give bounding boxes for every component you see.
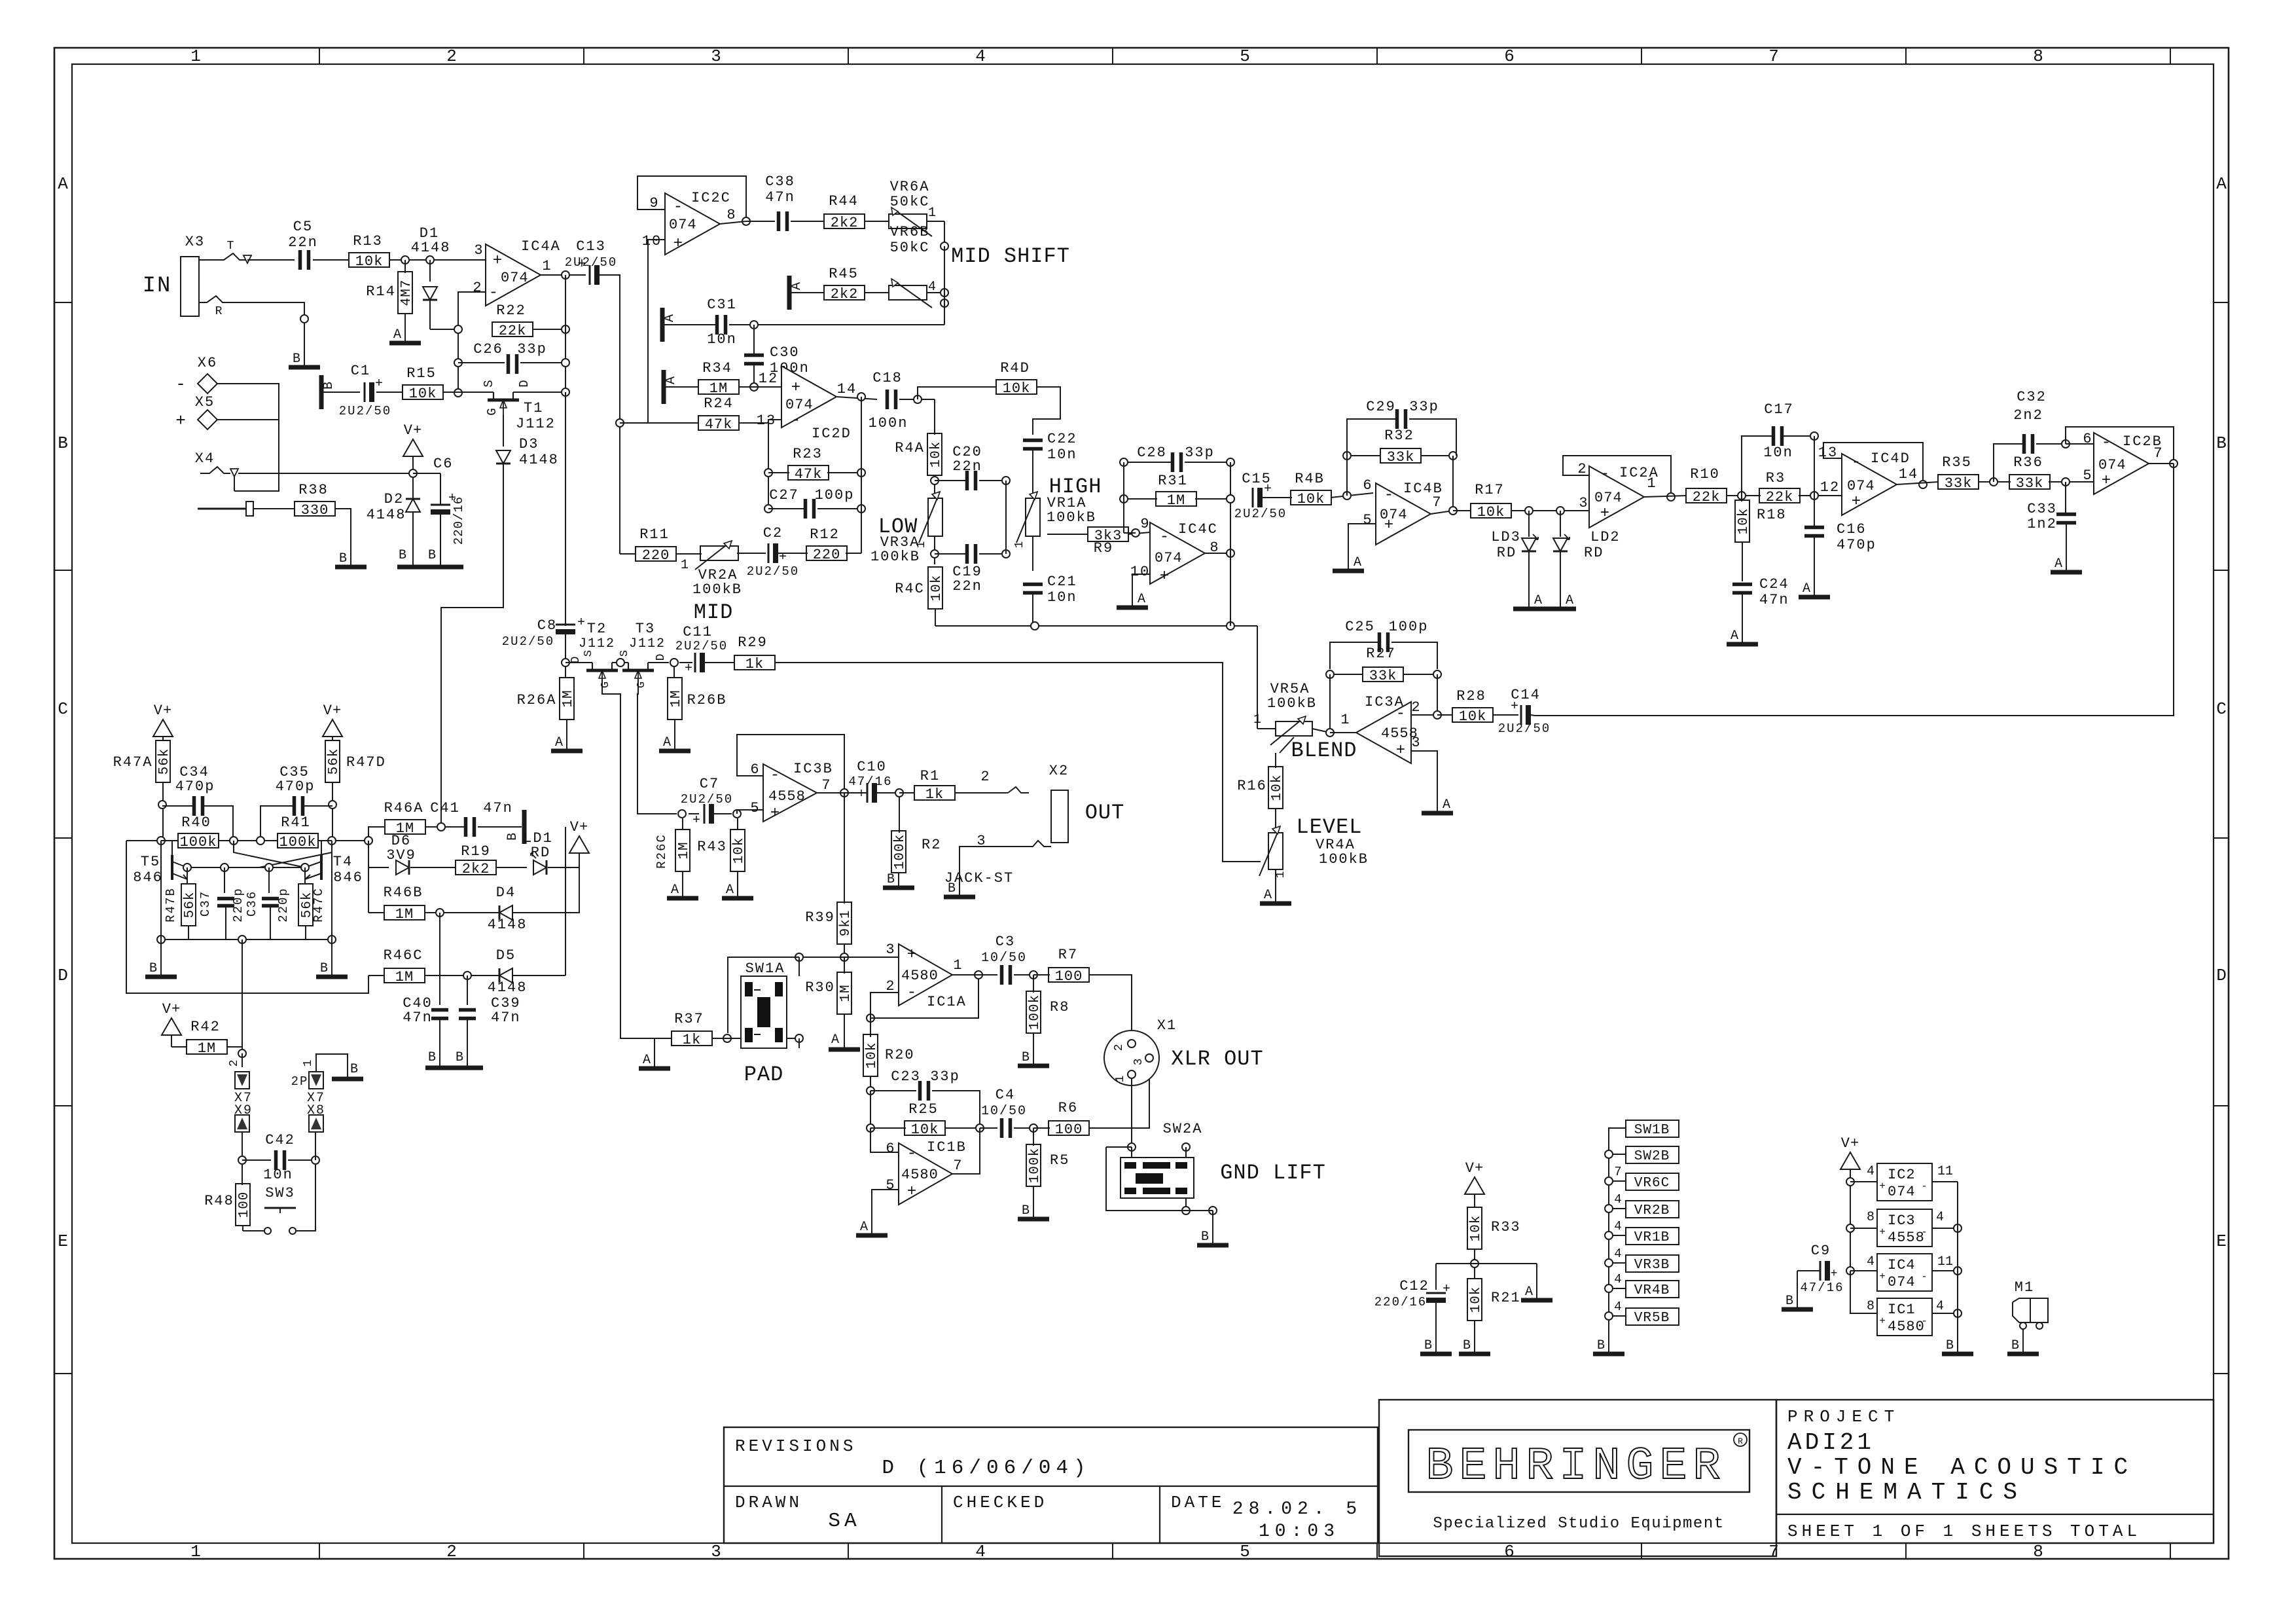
svg-text:R40: R40: [181, 814, 211, 831]
svg-text:R6: R6: [1058, 1100, 1078, 1116]
svg-text:2k2: 2k2: [831, 286, 859, 302]
svg-text:C13: C13: [576, 238, 606, 255]
svg-text:IC2D: IC2D: [812, 426, 852, 442]
svg-text:X4: X4: [195, 450, 215, 467]
svg-text:C: C: [58, 699, 68, 719]
svg-text:47n: 47n: [403, 1010, 433, 1026]
svg-text:R23: R23: [793, 446, 823, 462]
svg-text:VR2B: VR2B: [1634, 1203, 1670, 1218]
wire X4 row to V+ node: [238, 473, 413, 474]
svg-text:1: 1: [542, 258, 552, 274]
capacitor C27: [768, 508, 804, 509]
svg-text:VR3B: VR3B: [1634, 1258, 1670, 1273]
svg-text:22n: 22n: [952, 578, 982, 594]
svg-text:C24: C24: [1759, 576, 1789, 593]
svg-text:C5: C5: [293, 219, 313, 235]
svg-text:2U2/50: 2U2/50: [675, 639, 728, 653]
svg-text:B: B: [1946, 1338, 1954, 1353]
svg-text:R31: R31: [1158, 473, 1188, 489]
op-amp IC4A: [486, 244, 541, 306]
svg-text:10k: 10k: [1270, 775, 1285, 801]
svg-text:R17: R17: [1475, 482, 1505, 498]
svg-text:4: 4: [975, 1542, 986, 1561]
capacitor C34: [162, 805, 192, 807]
wire IC3A pin2 to R28: [1411, 714, 1437, 716]
svg-text:9: 9: [1140, 516, 1150, 532]
svg-text:C38: C38: [765, 173, 795, 190]
svg-text:9k1: 9k1: [838, 910, 853, 937]
svg-text:6: 6: [2083, 431, 2092, 447]
svg-text:5: 5: [750, 800, 760, 816]
svg-text:C30: C30: [770, 344, 800, 361]
svg-text:X3: X3: [185, 234, 205, 250]
svg-text:3V9: 3V9: [386, 847, 416, 864]
svg-text:C28: C28: [1137, 445, 1167, 461]
svg-text:10/50: 10/50: [981, 1104, 1027, 1119]
connector X5 diamond: [198, 410, 217, 429]
wire IC4D output: [1897, 482, 1939, 484]
svg-text:B: B: [1785, 1294, 1793, 1309]
ground B below ring node: [289, 365, 320, 370]
svg-text:10n: 10n: [707, 331, 737, 348]
resistor R4B: [1291, 490, 1331, 505]
resistor R19: [456, 860, 496, 875]
resistor R24: [620, 422, 699, 424]
ground B below T5: [145, 975, 177, 979]
svg-text:R20: R20: [885, 1047, 915, 1063]
svg-text:J112: J112: [579, 636, 615, 651]
svg-text:7: 7: [1768, 1542, 1779, 1561]
svg-text:M1: M1: [2015, 1279, 2034, 1296]
svg-text:14: 14: [837, 381, 857, 397]
resistor R39: [844, 896, 845, 903]
svg-text:4: 4: [1867, 1164, 1874, 1179]
svg-text:10k: 10k: [1459, 708, 1487, 725]
wire IC2A output: [1644, 496, 1687, 497]
svg-text:R5: R5: [1050, 1152, 1069, 1169]
svg-text:33k: 33k: [2016, 475, 2044, 492]
svg-text:10/50: 10/50: [981, 951, 1027, 966]
svg-text:B: B: [321, 382, 336, 390]
svg-text:C9: C9: [1811, 1243, 1831, 1259]
capacitor C22: [1023, 439, 1043, 443]
ground B right of C41: [522, 810, 527, 844]
svg-text:1: 1: [190, 1542, 201, 1561]
wire T2 gate down: [602, 680, 655, 1038]
svg-text:A: A: [1566, 593, 1573, 608]
ground B below wafer bus: [1593, 1352, 1624, 1357]
svg-text:SW2A: SW2A: [1163, 1121, 1203, 1137]
svg-text:4: 4: [1936, 1299, 1944, 1314]
svg-text:8: 8: [1867, 1210, 1874, 1225]
wire IC1A output: [952, 974, 997, 976]
capacitor C19: [934, 536, 935, 564]
svg-text:R39: R39: [805, 909, 835, 926]
resistor R11: [620, 553, 636, 555]
svg-text:10: 10: [1130, 564, 1150, 580]
op-amp IC2B: [2094, 433, 2149, 494]
capacitor C16: [1814, 496, 1815, 526]
svg-text:10k: 10k: [355, 253, 384, 270]
wire R33 node row: [1436, 1263, 1537, 1264]
capacitor C35: [260, 806, 293, 841]
svg-text:IC1A: IC1A: [927, 994, 967, 1010]
resistor R42: [187, 1040, 227, 1054]
tone stack bottom bus: [935, 625, 1257, 627]
svg-text:R1: R1: [920, 768, 940, 784]
wire T3 gate down: [637, 680, 677, 814]
svg-text:B: B: [2216, 433, 2227, 453]
svg-text:50kC: 50kC: [890, 240, 930, 256]
wire IC1B output: [952, 1128, 980, 1174]
IC2B feedback loop: [2066, 427, 2174, 464]
wire R6 to XLR pin3: [1088, 1058, 1149, 1128]
svg-text:G: G: [600, 682, 612, 688]
pot wafer VR4B: [1626, 1281, 1679, 1298]
ground B below R38: [335, 565, 367, 570]
capacitor C38: [777, 211, 781, 231]
svg-text:R34: R34: [702, 360, 732, 376]
svg-text:C27: C27: [769, 487, 799, 503]
ground B below R5: [1018, 1217, 1049, 1222]
svg-text:R47D: R47D: [346, 754, 386, 771]
capacitor C33: [2065, 482, 2066, 513]
resistor R41: [278, 833, 318, 848]
svg-text:1: 1: [1647, 475, 1657, 492]
svg-text:B: B: [1463, 1338, 1471, 1353]
svg-text:A: A: [1525, 1285, 1533, 1300]
pot wafer VR1B: [1626, 1228, 1679, 1245]
capacitor C41: [464, 817, 468, 837]
svg-text:2k2: 2k2: [462, 861, 490, 877]
capacitor C37: [224, 867, 225, 893]
IC4C input bus: [1123, 462, 1124, 533]
svg-text:+: +: [1160, 568, 1169, 585]
potentiometer VR2A: [700, 546, 738, 560]
svg-text:CHECKED: CHECKED: [953, 1493, 1047, 1512]
svg-text:A: A: [663, 735, 671, 750]
svg-text:B: B: [58, 433, 68, 453]
svg-text:R45: R45: [829, 266, 859, 282]
svg-text:47k: 47k: [795, 466, 823, 483]
ground A below R26C: [667, 896, 698, 901]
svg-text:C15: C15: [1242, 471, 1272, 487]
resistor R26C: [682, 818, 683, 830]
wire IC3B out down to R39: [844, 793, 845, 896]
svg-text:B: B: [1201, 1230, 1209, 1245]
svg-text:7: 7: [1432, 494, 1442, 511]
capacitor C14 electrolytic: [1520, 705, 1522, 725]
svg-text:B: B: [1022, 1203, 1030, 1218]
op-amp IC2C: [665, 193, 720, 255]
connector X7 pin1: [309, 1072, 323, 1089]
XLR connector X1: [1104, 1030, 1159, 1085]
svg-text:100k: 100k: [279, 834, 317, 850]
capacitor C25 feedback: [1330, 642, 1378, 669]
svg-text:1: 1: [1013, 541, 1026, 549]
svg-text:XLR OUT: XLR OUT: [1171, 1047, 1263, 1071]
svg-text:10:03: 10:03: [1259, 1522, 1340, 1542]
pot wafer VR6C: [1626, 1173, 1679, 1190]
svg-text:4: 4: [1614, 1247, 1621, 1261]
svg-text:2: 2: [1411, 699, 1421, 716]
svg-text:2: 2: [446, 46, 457, 66]
oscillator top wires: [126, 840, 178, 841]
svg-text:2P: 2P: [291, 1074, 309, 1089]
svg-text:R4B: R4B: [1295, 471, 1325, 487]
svg-text:V+: V+: [1841, 1135, 1859, 1152]
ground A below R43: [722, 896, 753, 901]
svg-text:470p: 470p: [175, 778, 215, 795]
svg-text:IC3B: IC3B: [793, 761, 833, 777]
resistor R16: [1280, 737, 1294, 753]
svg-text:10: 10: [642, 233, 662, 249]
svg-text:100kB: 100kB: [692, 581, 742, 598]
svg-text:RD: RD: [1497, 545, 1516, 561]
svg-text:V+: V+: [404, 422, 422, 439]
svg-text:3: 3: [886, 941, 895, 958]
svg-text:11: 11: [1937, 1254, 1953, 1269]
svg-text:7: 7: [821, 777, 831, 793]
svg-text:10k: 10k: [1477, 504, 1505, 520]
svg-text:C10: C10: [857, 759, 887, 775]
svg-text:8: 8: [2033, 46, 2043, 66]
svg-text:33p: 33p: [517, 341, 547, 357]
svg-text:C37: C37: [198, 890, 213, 917]
svg-text:3: 3: [1579, 495, 1588, 511]
svg-text:-: -: [791, 412, 800, 429]
svg-text:R38: R38: [298, 482, 329, 498]
svg-text:2U2/50: 2U2/50: [565, 255, 617, 270]
svg-text:SHEET 1 OF 1 SHEETS TOTAL: SHEET 1 OF 1 SHEETS TOTAL: [1787, 1522, 2141, 1541]
ground B below IC bus: [1942, 1352, 1973, 1357]
svg-text:-: -: [1921, 1315, 1928, 1327]
svg-text:B: B: [505, 833, 520, 841]
ground B below R2: [883, 886, 914, 890]
potentiometer VR6B: [889, 285, 927, 300]
svg-text:1M: 1M: [669, 689, 684, 707]
IC power right bus: [1957, 1182, 1958, 1353]
svg-text:R21: R21: [1491, 1290, 1521, 1306]
svg-text:+: +: [1879, 1271, 1886, 1283]
svg-text:2: 2: [473, 280, 482, 296]
svg-text:MID: MID: [694, 600, 734, 625]
svg-text:50kC: 50kC: [890, 194, 930, 210]
svg-text:4: 4: [975, 46, 986, 66]
ground B left of C9: [1782, 1307, 1813, 1312]
svg-text:1M: 1M: [838, 984, 853, 1002]
svg-text:12: 12: [1820, 479, 1840, 496]
svg-text:R33: R33: [1491, 1219, 1521, 1235]
wire C7 node to IC3B pin5: [737, 810, 763, 814]
resistor R47B: [187, 867, 188, 884]
svg-text:3: 3: [474, 242, 484, 259]
svg-text:R29: R29: [738, 634, 768, 651]
svg-text:A: A: [789, 282, 804, 290]
svg-text:X8: X8: [307, 1103, 325, 1118]
capacitor C32: [1994, 444, 2022, 482]
svg-text:R11: R11: [639, 526, 670, 543]
resistor R6: [1033, 1127, 1050, 1129]
svg-text:A: A: [1354, 555, 1361, 570]
svg-text:-: -: [489, 284, 498, 302]
svg-text:C25: C25: [1345, 619, 1375, 635]
svg-text:7: 7: [1768, 46, 1779, 66]
svg-text:+: +: [857, 787, 865, 802]
svg-text:+: +: [1879, 1226, 1886, 1238]
svg-text:1k: 1k: [745, 656, 764, 672]
svg-text:7: 7: [2153, 445, 2163, 462]
capacitor C9 electrolytic: [1820, 1261, 1821, 1281]
svg-text:1: 1: [953, 957, 963, 974]
resistor R38: [295, 501, 335, 516]
svg-text:33p: 33p: [930, 1068, 960, 1085]
svg-text:+: +: [1384, 517, 1393, 534]
svg-text:B: B: [1022, 1050, 1030, 1065]
wire pad node row: [799, 957, 899, 958]
ground B below SW2A: [1197, 1243, 1229, 1248]
svg-text:G: G: [485, 408, 499, 415]
svg-text:A: A: [1534, 593, 1542, 608]
svg-text:47n: 47n: [1759, 592, 1789, 608]
svg-text:+: +: [1879, 1315, 1886, 1327]
svg-text:2U2/50: 2U2/50: [681, 792, 733, 807]
wire D3 down left to C41 node: [441, 464, 503, 827]
emitter bottom wires: [161, 939, 188, 940]
svg-text:470p: 470p: [1837, 537, 1876, 553]
svg-text:-: -: [1384, 486, 1393, 504]
svg-text:4580: 4580: [901, 968, 939, 984]
svg-text:33k: 33k: [1369, 668, 1397, 684]
svg-text:+: +: [673, 235, 683, 253]
svg-text:S: S: [482, 380, 496, 387]
wire pin2 bus to R20: [870, 993, 871, 1037]
svg-text:1: 1: [915, 541, 928, 549]
wire R7 to XLR pin2: [1088, 975, 1132, 1030]
resistor R17: [1471, 503, 1511, 518]
svg-text:V+: V+: [162, 1001, 181, 1017]
IC4D feedback loop: [1823, 443, 1923, 484]
wire IC2B pin6: [2066, 443, 2094, 445]
svg-text:R47A: R47A: [113, 754, 153, 771]
IC3 power box: [1877, 1209, 1932, 1247]
svg-text:33p: 33p: [1185, 445, 1215, 461]
svg-text:R26A: R26A: [517, 692, 557, 708]
svg-text:SW1B: SW1B: [1634, 1123, 1670, 1138]
svg-text:10k: 10k: [865, 1042, 880, 1069]
V+ above R47A: [153, 720, 173, 737]
svg-text:X6: X6: [198, 355, 217, 371]
svg-text:R41: R41: [281, 814, 311, 831]
svg-text:B: B: [149, 961, 157, 976]
svg-text:+: +: [779, 550, 787, 565]
wire C5 to R13: [313, 259, 349, 261]
svg-text:2U2/50: 2U2/50: [1234, 507, 1287, 521]
wire bus to VR5A pin1: [1257, 626, 1258, 729]
svg-text:33p: 33p: [1409, 399, 1439, 415]
svg-text:220p: 220p: [231, 887, 245, 922]
svg-text:R42: R42: [190, 1019, 221, 1035]
ground A below VR4A: [1260, 902, 1291, 906]
svg-text:4: 4: [1614, 1192, 1621, 1207]
svg-text:B: B: [1597, 1338, 1605, 1353]
capacitor C5: [298, 250, 302, 270]
svg-text:R8: R8: [1050, 999, 1069, 1015]
svg-text:846: 846: [333, 869, 363, 886]
resistor R20: [863, 1034, 878, 1076]
svg-text:28.02. 5: 28.02. 5: [1232, 1499, 1362, 1520]
svg-text:IC3: IC3: [1888, 1213, 1916, 1229]
svg-text:SCHEMATICS: SCHEMATICS: [1787, 1479, 2027, 1506]
capacitor C2 electrolytic: [768, 543, 770, 563]
IC4 power box: [1877, 1254, 1932, 1291]
svg-text:1M: 1M: [709, 380, 728, 397]
svg-text:IC4D: IC4D: [1871, 450, 1910, 467]
svg-text:100kB: 100kB: [870, 549, 920, 565]
svg-text:IC4A: IC4A: [521, 238, 561, 255]
svg-text:C41: C41: [430, 800, 460, 816]
svg-text:100p: 100p: [815, 487, 855, 503]
IC4C output bus: [1205, 553, 1230, 554]
capacitor C26: [458, 362, 505, 363]
svg-text:4558: 4558: [1888, 1230, 1925, 1246]
svg-text:100k: 100k: [1028, 994, 1043, 1030]
svg-text:LEVEL: LEVEL: [1296, 815, 1362, 839]
svg-text:5: 5: [1240, 1542, 1250, 1561]
svg-text:C11: C11: [683, 624, 713, 640]
svg-text:X1: X1: [1157, 1017, 1177, 1034]
svg-text:C42: C42: [265, 1132, 295, 1148]
capacitor C21: [1032, 536, 1033, 571]
svg-text:B: B: [339, 551, 347, 566]
svg-text:D3: D3: [519, 436, 539, 452]
resistor R46A: [368, 827, 386, 841]
svg-text:4: 4: [1936, 1210, 1944, 1225]
svg-text:B: B: [399, 548, 406, 563]
switch wafer SW2B: [1626, 1146, 1679, 1163]
svg-text:1: 1: [1340, 712, 1350, 728]
svg-text:IC1: IC1: [1888, 1302, 1916, 1318]
resistor R35: [1938, 475, 1979, 489]
svg-text:V-TONE ACOUSTIC: V-TONE ACOUSTIC: [1787, 1454, 2137, 1481]
capacitor C28 feedback: [1124, 462, 1172, 463]
resistor R2: [899, 797, 900, 833]
svg-text:14: 14: [1899, 466, 1918, 483]
resistor R46B: [368, 912, 385, 913]
svg-text:1: 1: [1114, 1076, 1127, 1083]
svg-text:R15: R15: [406, 365, 437, 382]
svg-text:+: +: [791, 379, 800, 397]
svg-text:+: +: [577, 615, 585, 630]
ground A below LD2: [1545, 607, 1576, 611]
IC1A feedback: [870, 993, 899, 1018]
svg-text:SW3: SW3: [265, 1185, 295, 1201]
resistor R1: [899, 792, 915, 793]
resistor R18: [1741, 496, 1742, 501]
svg-text:2: 2: [446, 1542, 457, 1561]
svg-text:X9: X9: [234, 1103, 253, 1118]
svg-text:G: G: [636, 682, 648, 688]
capacitor C42: [242, 1132, 243, 1160]
svg-text:+: +: [1831, 1267, 1838, 1281]
svg-text:1k: 1k: [925, 786, 944, 803]
svg-text:-: -: [907, 984, 916, 1002]
svg-text:D4: D4: [496, 884, 516, 901]
svg-text:VR6A: VR6A: [890, 179, 930, 195]
svg-text:3: 3: [1132, 1059, 1145, 1066]
svg-text:C14: C14: [1511, 687, 1541, 703]
svg-text:+: +: [1443, 1282, 1450, 1297]
